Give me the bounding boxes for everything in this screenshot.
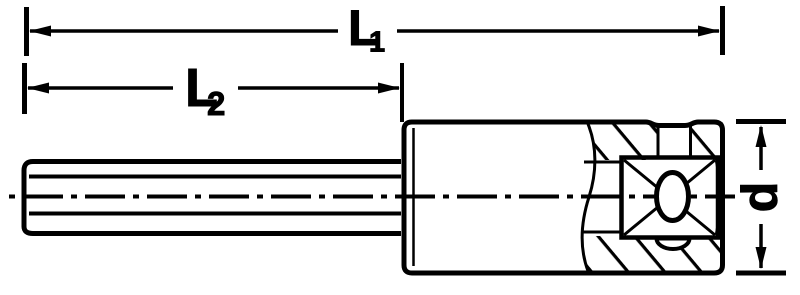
- svg-text:d: d: [732, 182, 788, 213]
- svg-text:1: 1: [369, 27, 385, 59]
- svg-text:2: 2: [207, 85, 225, 122]
